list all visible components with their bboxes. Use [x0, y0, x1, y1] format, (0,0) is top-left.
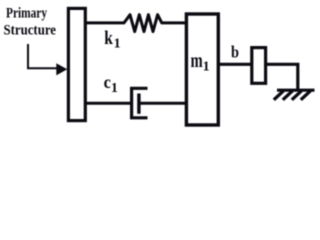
svg-text:k: k: [104, 28, 113, 49]
svg-text:m: m: [191, 50, 203, 72]
svg-text:Primary: Primary: [6, 6, 47, 22]
svg-text:b: b: [231, 43, 239, 62]
svg-text:Structure: Structure: [4, 23, 57, 39]
svg-text:1: 1: [203, 60, 210, 75]
svg-text:c: c: [104, 72, 111, 92]
svg-text:1: 1: [111, 81, 118, 96]
svg-text:1: 1: [114, 37, 121, 52]
